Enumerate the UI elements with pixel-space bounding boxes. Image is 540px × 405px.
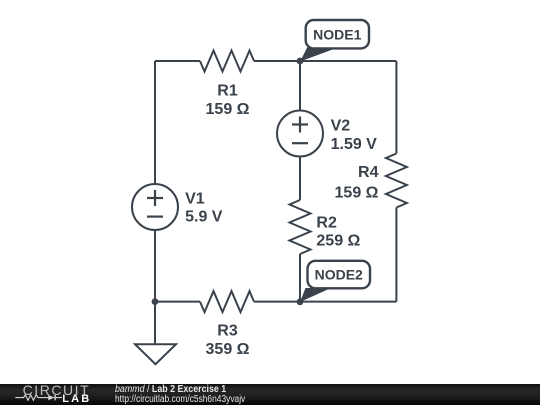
svg-text:359 Ω: 359 Ω xyxy=(206,341,250,358)
svg-text:159 Ω: 159 Ω xyxy=(335,184,379,201)
svg-text:R4: R4 xyxy=(358,164,379,181)
svg-text:NODE2: NODE2 xyxy=(315,267,363,283)
svg-text:LAB: LAB xyxy=(62,393,91,405)
svg-text:R2: R2 xyxy=(316,215,337,232)
svg-text:159 Ω: 159 Ω xyxy=(206,101,250,118)
svg-text:V1: V1 xyxy=(185,191,205,208)
svg-text:R1: R1 xyxy=(217,83,238,100)
svg-text:259 Ω: 259 Ω xyxy=(316,232,360,249)
svg-text:V2: V2 xyxy=(331,117,351,134)
svg-text:NODE1: NODE1 xyxy=(313,26,361,42)
svg-text:R3: R3 xyxy=(217,323,238,340)
svg-text:1.59 V: 1.59 V xyxy=(331,136,378,153)
svg-text:5.9 V: 5.9 V xyxy=(185,209,223,226)
